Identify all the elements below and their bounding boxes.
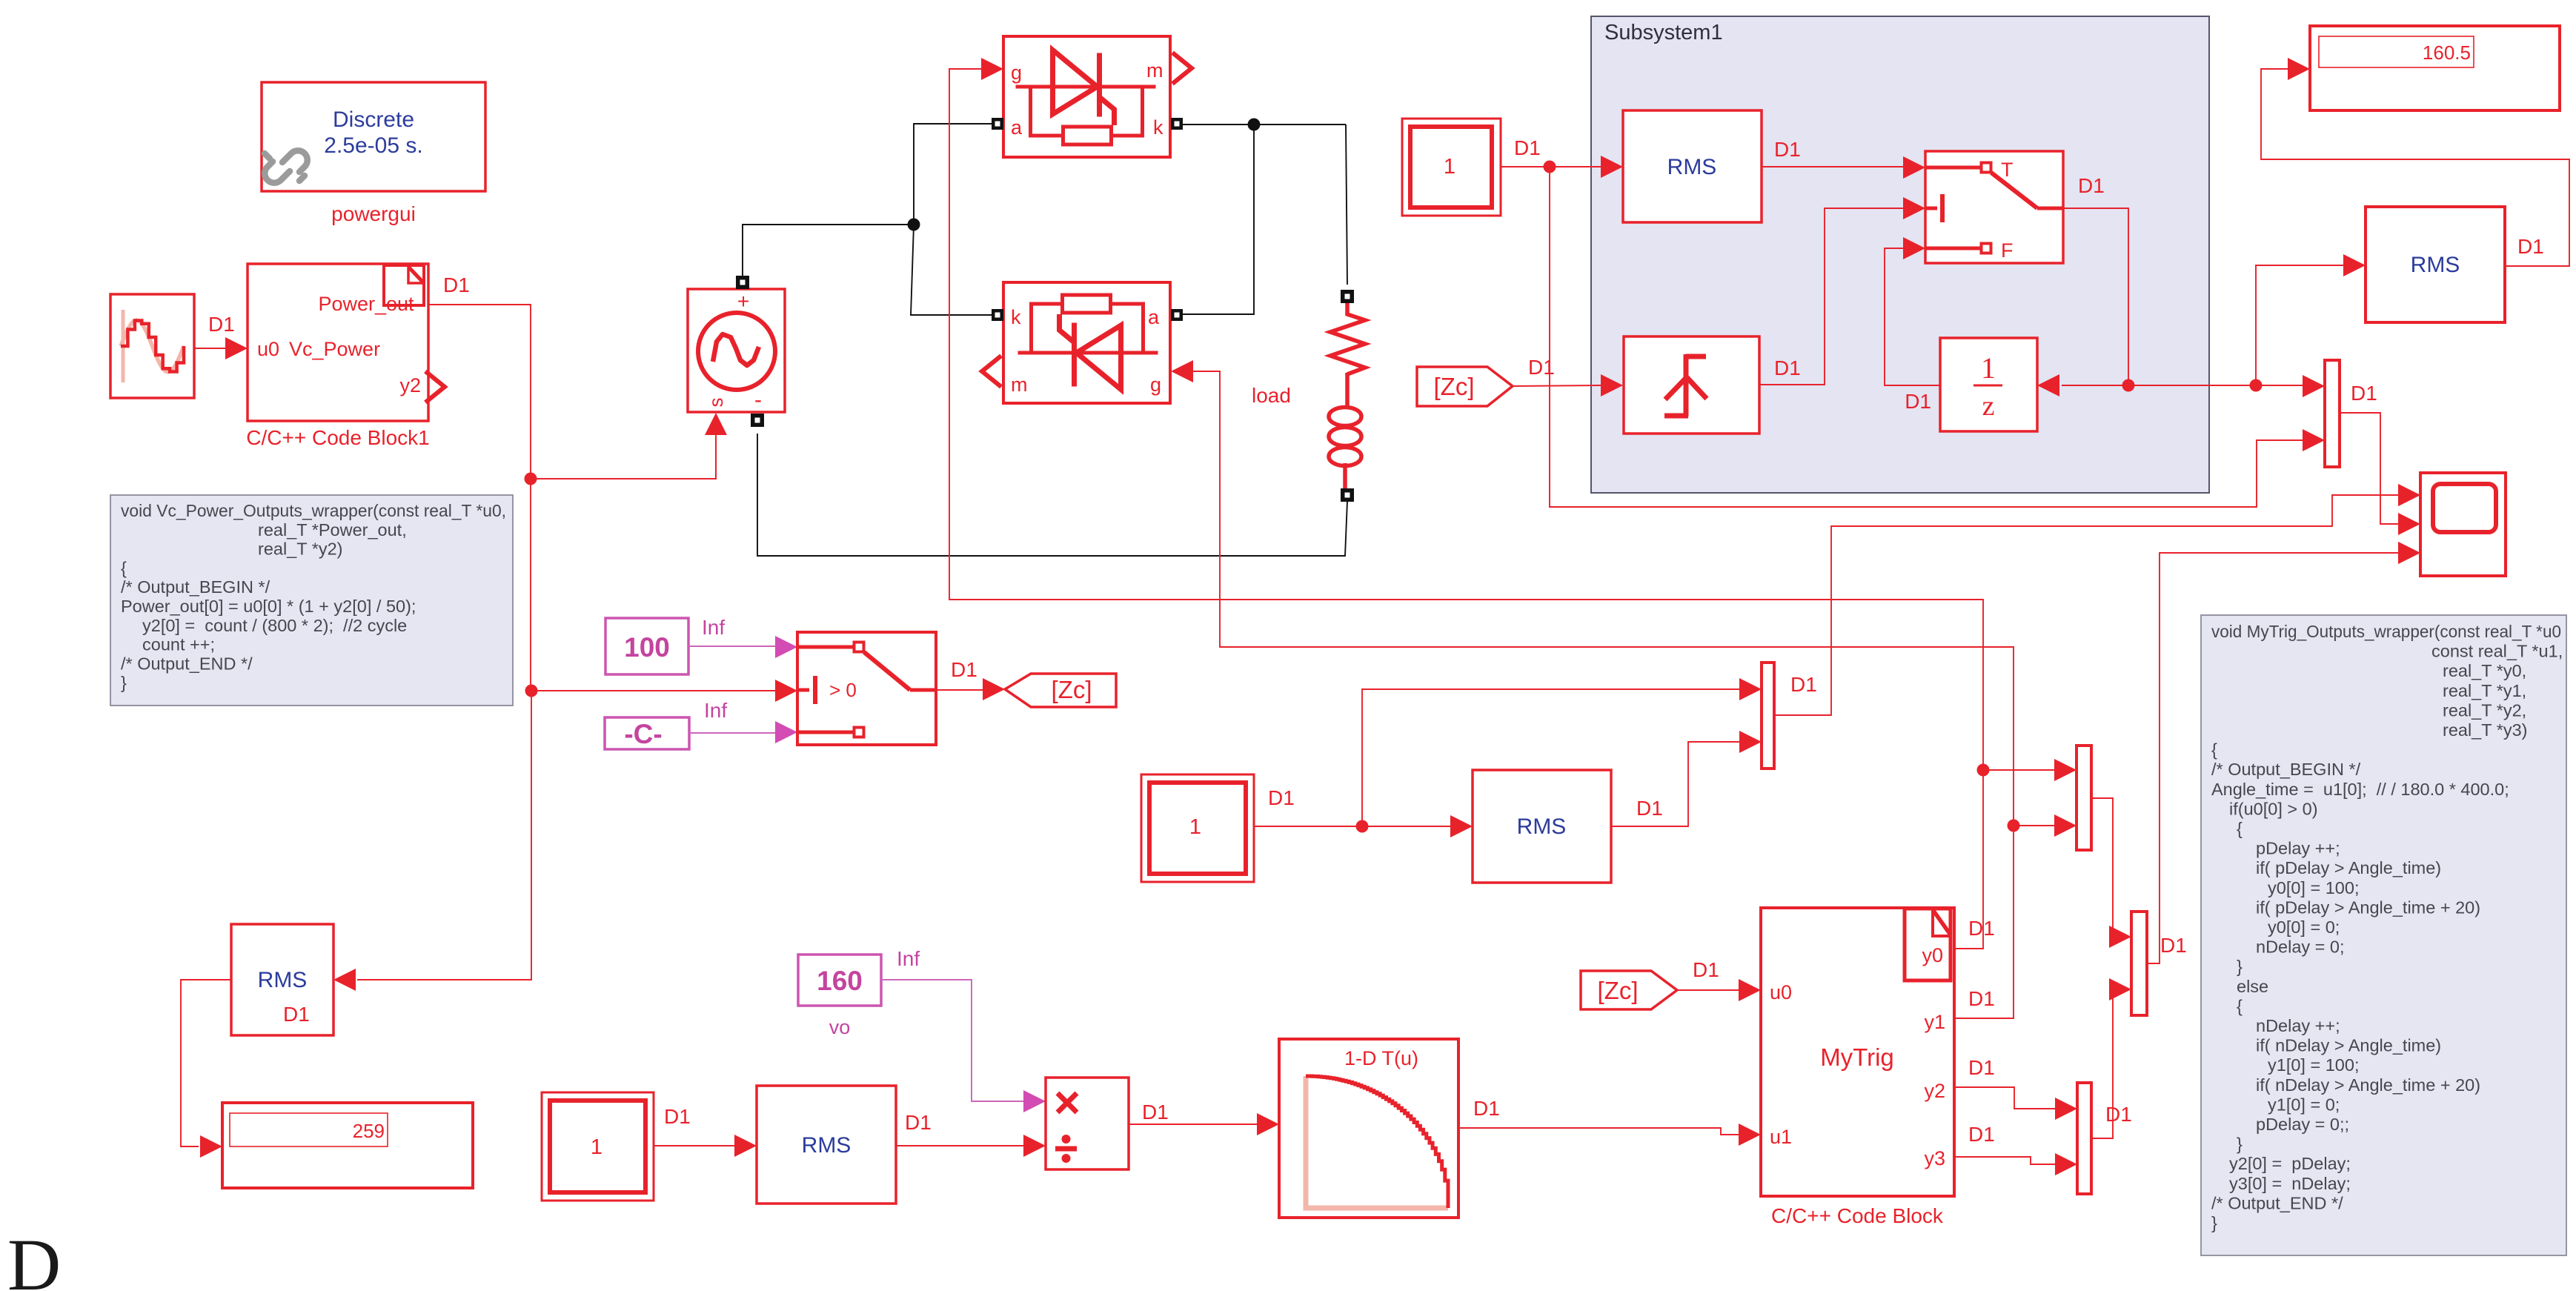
svg-text:real_T *y3): real_T *y3) — [2443, 720, 2528, 740]
code text block MyTrig_Outputs_wrapper — [2201, 615, 2566, 1255]
wire Zc2 to MyTrig u0 — [1678, 989, 1739, 991]
svg-text:y1: y1 — [1924, 1011, 1945, 1033]
wire RMS mid to mux M2 input2 — [1611, 742, 1740, 826]
arrow into AC source s input — [705, 413, 727, 435]
svg-text:D1: D1 — [1968, 987, 1995, 1010]
svg-text:D1: D1 — [1528, 356, 1555, 379]
svg-text:nDelay ++;: nDelay ++; — [2256, 1016, 2340, 1035]
svg-text:{: { — [2211, 740, 2217, 760]
svg-text:D1: D1 — [905, 1111, 932, 1134]
wire product to 1-D T(u) — [1129, 1124, 1258, 1125]
AC source input stem — [715, 435, 717, 479]
AC source sine symbol — [713, 334, 759, 365]
svg-text:if(u0[0] > 0): if(u0[0] > 0) — [2229, 799, 2318, 818]
mux M3 — [2077, 746, 2091, 850]
svg-text:D1: D1 — [1968, 1056, 1995, 1079]
constant 1 block (top) — [1402, 119, 1501, 216]
RMS block (right) — [2366, 207, 2505, 322]
svg-text:1-D T(u): 1-D T(u) — [1344, 1047, 1418, 1069]
wire MyTrig y0 to Thy1 gate — [949, 69, 1983, 770]
svg-text:/* Output_END */: /* Output_END */ — [121, 654, 253, 673]
svg-text:Inf: Inf — [702, 616, 725, 639]
powergui block (Discrete 2.5e-05 s.) — [262, 82, 485, 191]
svg-text:Power_out: Power_out — [318, 293, 414, 315]
svg-text:y0[0] = 100;: y0[0] = 100; — [2268, 878, 2359, 897]
wire junction to mux M1 input1 — [2256, 385, 2305, 386]
svg-text:100: 100 — [624, 632, 670, 663]
svg-text:D1: D1 — [2517, 235, 2544, 258]
wire Zc to hit crossing — [1513, 385, 1601, 386]
svg-text:C/C++ Code Block: C/C++ Code Block — [1771, 1204, 1944, 1227]
svg-text:y3[0] = nDelay;: y3[0] = nDelay; — [2229, 1174, 2351, 1193]
code text block Vc_Power_Outputs_wrapper — [110, 495, 513, 706]
svg-text:D1: D1 — [951, 658, 977, 681]
svg-text:vo: vo — [829, 1016, 851, 1038]
svg-text:D1: D1 — [1905, 390, 1931, 413]
load top port — [1341, 290, 1354, 303]
black wire thyristor k to load junction — [1183, 124, 1346, 125]
svg-text:Power_out[0] = u0[0] * (1 + y2: Power_out[0] = u0[0] * (1 + y2[0] / 50); — [121, 597, 416, 616]
svg-text:u1: u1 — [1770, 1126, 1792, 1148]
svg-text:RMS: RMS — [2411, 253, 2460, 277]
wire y1 to mux M3 input2 — [1954, 826, 2056, 1018]
Hit Crossing block — [1624, 336, 1759, 434]
constant 1 block (middle) — [1141, 774, 1254, 882]
svg-text:[Zc]: [Zc] — [1434, 373, 1475, 400]
svg-text:D1: D1 — [1968, 1123, 1995, 1146]
svg-text:D1: D1 — [1774, 356, 1801, 379]
junction before mux M1 — [2250, 379, 2263, 392]
AC voltage source block — [688, 289, 785, 412]
constant 1 block (bottom) — [542, 1092, 654, 1201]
wire junction up to RMS right input — [2256, 265, 2345, 385]
svg-text:D1: D1 — [1693, 958, 1719, 981]
svg-text:if( pDelay > Angle_time + 20): if( pDelay > Angle_time + 20) — [2256, 897, 2480, 917]
svg-text:259: 259 — [353, 1120, 385, 1142]
load bottom port — [1341, 488, 1354, 502]
Thy1 a port — [992, 118, 1003, 130]
svg-text:y2: y2 — [1924, 1080, 1945, 1102]
lookup table axes — [1306, 1076, 1448, 1208]
RMS block (left bottom) — [231, 924, 333, 1035]
black wire junction down to thyristor2 k port — [911, 225, 992, 315]
svg-text:RMS: RMS — [1517, 814, 1567, 839]
svg-text:D1: D1 — [664, 1105, 691, 1128]
svg-text:1: 1 — [591, 1135, 602, 1159]
wire const1 branch up to mux M2 input1 — [1362, 689, 1740, 826]
svg-text:Discrete: Discrete — [333, 107, 414, 132]
wire RMS right to display 160.5 — [2261, 69, 2569, 266]
svg-text:pDelay = 0;;: pDelay = 0;; — [2256, 1115, 2349, 1134]
svg-text:{: { — [2237, 996, 2243, 1015]
svg-text:D1: D1 — [2160, 934, 2187, 957]
svg-text:load: load — [1252, 384, 1291, 407]
svg-text:> 0: > 0 — [829, 679, 857, 701]
svg-text:real_T *y1,: real_T *y1, — [2443, 681, 2526, 700]
svg-text:y2[0] = count / (800 * 2); /: y2[0] = count / (800 * 2); //2 cycle — [142, 616, 407, 635]
RMS block (bottom) — [757, 1086, 896, 1204]
wire 1/z output to switch F input — [1885, 248, 1940, 385]
svg-text:T: T — [2001, 159, 2014, 181]
svg-text:real_T *y2): real_T *y2) — [258, 540, 343, 559]
svg-text:160: 160 — [817, 966, 863, 996]
svg-text:const real_T *u1,: const real_T *u1, — [2431, 642, 2563, 661]
svg-text:real_T *y2,: real_T *y2, — [2443, 700, 2526, 720]
svg-text:D1: D1 — [2105, 1103, 2132, 1126]
display block 160.5 — [2310, 26, 2560, 110]
black wire junction2 to load top — [1346, 125, 1347, 285]
C/C++ Code Block1 page-fold icon — [384, 265, 424, 305]
wire 160 to product input1 — [881, 980, 1025, 1101]
wire MyTrig y1 to Thy2 gate — [1193, 371, 2014, 826]
svg-text:D1: D1 — [1473, 1097, 1500, 1120]
mux M4 — [2077, 1083, 2091, 1194]
C/C++ Code Block1 y2 unconnected output chevron — [425, 371, 445, 402]
svg-text:count ++;: count ++; — [142, 635, 215, 654]
svg-text:1: 1 — [1444, 155, 1455, 179]
wire -C- to switch input3 — [689, 732, 777, 734]
svg-text:/* Output_END */: /* Output_END */ — [2211, 1193, 2343, 1212]
svg-text:pDelay ++;: pDelay ++; — [2256, 839, 2340, 858]
svg-text:k: k — [1011, 306, 1021, 328]
constant 100 block — [605, 618, 688, 674]
Thy1 k port — [1171, 118, 1183, 130]
wire y3 to mux M4 input2 — [1954, 1157, 2057, 1164]
wire hit crossing to switch middle input — [1759, 208, 1903, 385]
svg-text:D1: D1 — [1268, 786, 1295, 809]
junction const1 mid — [1356, 820, 1369, 833]
Thy1 m output chevron — [1172, 53, 1192, 84]
svg-text:m: m — [1011, 374, 1028, 396]
Thy2 k port — [992, 309, 1003, 321]
constant 160 block (vo) — [798, 955, 881, 1006]
wire switch out to goto Zc — [936, 689, 984, 691]
wire switch output to junction and 1/z — [2063, 208, 2128, 385]
black junction dot — [908, 219, 920, 231]
thyristor block Thy1 (top) — [1003, 36, 1170, 157]
product (divide) block — [1046, 1078, 1129, 1169]
wire const1 to Subsystem RMS — [1501, 166, 1601, 167]
svg-text:{: { — [121, 558, 127, 577]
thyristor block Thy2 (bottom, rotated) — [1003, 282, 1170, 403]
junction switch out — [2122, 379, 2135, 392]
wire mux M5 to scope input3 — [2147, 553, 2400, 963]
scope input arrows — [2398, 484, 2420, 506]
svg-text:D1: D1 — [1968, 917, 1995, 940]
svg-text:u0: u0 — [257, 338, 279, 360]
Thy1 g input arrow — [981, 58, 1003, 80]
svg-text:y0: y0 — [1922, 944, 1943, 966]
wire const1 mid to RMS mid — [1254, 826, 1452, 827]
svg-text:void Vc_Power_Outputs_wrapper(: void Vc_Power_Outputs_wrapper(const real… — [121, 501, 506, 520]
hit crossing icon — [1664, 354, 1707, 416]
svg-text:C/C++ Code Block1: C/C++ Code Block1 — [246, 426, 429, 449]
load bottom connector — [1343, 463, 1347, 489]
svg-text:a: a — [1148, 306, 1160, 328]
display block 259 — [222, 1103, 473, 1188]
svg-text:Vc_Power: Vc_Power — [289, 338, 380, 360]
load connector — [1345, 373, 1350, 408]
svg-text:D1: D1 — [1774, 138, 1801, 161]
svg-text:g: g — [1011, 62, 1022, 84]
wire y0 to mux M3 input1 — [1954, 770, 2056, 949]
Goto tag [Zc] — [1005, 674, 1116, 707]
svg-text:[Zc]: [Zc] — [1052, 676, 1092, 703]
wire const1 branch down around subsystem to mux M1 input2 — [1550, 167, 2305, 507]
C/C++ Code Block1 — [248, 264, 428, 421]
svg-text:y1[0] = 100;: y1[0] = 100; — [2268, 1055, 2359, 1075]
junction Power_out split — [525, 473, 537, 485]
mux M2 — [1762, 663, 1774, 769]
wire junction down to switch row — [530, 479, 531, 691]
Thy2 g input arrow — [1171, 360, 1193, 382]
svg-text:Inf: Inf — [897, 947, 920, 970]
wire mux M3 down to mux M5 input1 — [2091, 798, 2113, 937]
svg-text:real_T *Power_out,: real_T *Power_out, — [258, 520, 407, 540]
svg-text:D1: D1 — [208, 313, 235, 336]
powergui broken-link icon — [265, 150, 308, 182]
svg-text:F: F — [2001, 239, 2014, 262]
wire const1 bottom to RMS bottom — [654, 1145, 734, 1146]
AC source + port — [736, 276, 749, 289]
source waveform block (Vc input) — [110, 294, 194, 398]
mux M5 — [2131, 912, 2147, 1015]
svg-text:real_T *y0,: real_T *y0, — [2443, 661, 2526, 680]
constant -C- block — [605, 717, 689, 749]
wire 100 to switch input1 — [688, 645, 777, 647]
From tag [Zc] (subsystem input) — [1417, 367, 1513, 406]
svg-text:D1: D1 — [283, 1003, 310, 1026]
svg-text:z: z — [1982, 391, 1995, 422]
svg-text:[Zc]: [Zc] — [1598, 977, 1639, 1004]
wire mux M4 up to mux M5 input2 — [2091, 989, 2113, 1138]
svg-text:1: 1 — [1981, 351, 1996, 385]
scope block — [2420, 473, 2506, 576]
Thy2 m output chevron — [982, 356, 1001, 387]
svg-text:m: m — [1146, 59, 1163, 82]
junction at switch input row — [525, 685, 538, 697]
svg-text:nDelay = 0;: nDelay = 0; — [2256, 937, 2345, 957]
wire junction to subsystem exit — [2128, 385, 2257, 386]
svg-text:void MyTrig_Outputs_wrapper(co: void MyTrig_Outputs_wrapper(const real_T… — [2211, 622, 2561, 641]
svg-text:{: { — [2237, 819, 2243, 838]
svg-text:D1: D1 — [1636, 797, 1663, 820]
black wire junction2 down to thyristor2 a port — [1183, 125, 1254, 314]
svg-text:D: D — [7, 1224, 61, 1291]
svg-text:-C-: -C- — [624, 719, 662, 749]
svg-text:u0: u0 — [1770, 981, 1792, 1003]
Switch block (>0) — [797, 632, 936, 745]
black wire junction up to thyristor a port — [914, 124, 992, 225]
svg-text:RMS: RMS — [802, 1133, 852, 1158]
svg-text:Subsystem1: Subsystem1 — [1604, 21, 1723, 44]
svg-text:Angle_time = u1[0]; // / 180: Angle_time = u1[0]; // / 180.0 * 400.0; — [2211, 780, 2509, 799]
wire lookup to MyTrig u1 — [1458, 1128, 1739, 1135]
svg-text:}: } — [2237, 1135, 2243, 1154]
MyTrig y0 page-fold icon — [1905, 909, 1951, 980]
svg-text:MyTrig: MyTrig — [1820, 1043, 1894, 1071]
wire y2 to mux M4 input1 — [1954, 1087, 2057, 1109]
From tag [Zc] 2 (to MyTrig u0) — [1581, 971, 1677, 1009]
svg-text:/* Output_BEGIN */: /* Output_BEGIN */ — [121, 577, 270, 597]
svg-text:D1: D1 — [443, 273, 470, 296]
svg-text:a: a — [1011, 116, 1023, 139]
Switch block (T/F) in subsystem — [1925, 151, 2063, 263]
svg-text:+: + — [737, 290, 749, 313]
svg-text:D1: D1 — [1514, 136, 1541, 159]
wire RMS bottom to product input2 — [896, 1145, 1025, 1146]
1-D T(u) lookup table block — [1279, 1039, 1458, 1218]
load resistor — [1330, 303, 1365, 374]
svg-text:D1: D1 — [2078, 174, 2105, 197]
wire mux M2 to scope input1 — [1774, 495, 2401, 715]
svg-text:RMS: RMS — [1667, 155, 1717, 179]
svg-text:s: s — [705, 398, 727, 408]
Subsystem RMS block — [1623, 110, 1762, 222]
RMS block (middle) — [1473, 770, 1611, 883]
svg-text:-: - — [754, 388, 762, 412]
svg-text:1: 1 — [1189, 815, 1201, 839]
svg-text:2.5e-05 s.: 2.5e-05 s. — [324, 133, 422, 158]
svg-text:y0[0] = 0;: y0[0] = 0; — [2268, 917, 2340, 937]
MyTrig C/C++ Code Block — [1761, 908, 1954, 1196]
svg-text:k: k — [1153, 116, 1163, 139]
svg-text:D1: D1 — [1790, 673, 1817, 696]
svg-text:powergui: powergui — [331, 202, 416, 225]
junction y1 branch — [2008, 820, 2020, 832]
Thy2 a port — [1171, 309, 1183, 321]
svg-text:if( nDelay > Angle_time + 20): if( nDelay > Angle_time + 20) — [2256, 1075, 2480, 1095]
Subsystem1 box — [1591, 16, 2209, 493]
black junction dot 2 — [1248, 119, 1261, 131]
svg-text:y3: y3 — [1924, 1147, 1945, 1169]
wire junction to switch control input — [531, 690, 777, 691]
svg-text:Inf: Inf — [704, 699, 727, 722]
svg-text:}: } — [121, 673, 127, 692]
load inductor loops — [1329, 408, 1361, 426]
mux M1 — [2325, 360, 2340, 467]
svg-text:160.5: 160.5 — [2423, 42, 2471, 64]
wire junction down to RMS4 input — [357, 691, 531, 980]
black return wire load bottom to AC- — [757, 434, 1347, 556]
black wire AC+ to anode junction — [743, 225, 914, 276]
wire mux M1 to scope input2 — [2340, 413, 2400, 524]
svg-text:/* Output_BEGIN */: /* Output_BEGIN */ — [2211, 760, 2361, 779]
wire subsystem RMS to switch T input — [1762, 166, 1903, 167]
AC source - port — [751, 414, 764, 427]
svg-text:}: } — [2237, 957, 2243, 976]
svg-text:y2[0] = pDelay;: y2[0] = pDelay; — [2229, 1154, 2351, 1173]
svg-text:}: } — [2211, 1213, 2217, 1232]
svg-text:if( nDelay > Angle_time): if( nDelay > Angle_time) — [2256, 1036, 2441, 1055]
svg-text:RMS: RMS — [258, 968, 308, 992]
svg-text:D1: D1 — [2351, 382, 2377, 405]
Unit Delay 1/z block — [1940, 338, 2037, 431]
junction y0 branch — [1977, 764, 1990, 777]
wire RMS left to display 259 — [181, 980, 231, 1146]
lookup table curve — [1306, 1076, 1448, 1208]
svg-text:y2: y2 — [399, 374, 421, 396]
svg-text:y1[0] = 0;: y1[0] = 0; — [2268, 1095, 2340, 1114]
svg-text:else: else — [2237, 977, 2268, 996]
svg-text:D1: D1 — [1142, 1101, 1169, 1124]
svg-text:g: g — [1150, 374, 1161, 396]
junction const1 — [1544, 161, 1556, 173]
svg-text:if( pDelay > Angle_time): if( pDelay > Angle_time) — [2256, 858, 2441, 877]
